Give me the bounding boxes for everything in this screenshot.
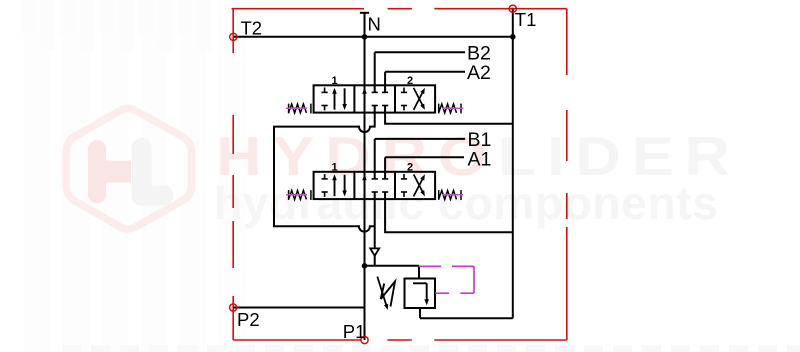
svg-text:2: 2 bbox=[407, 161, 413, 173]
svg-text:P1: P1 bbox=[343, 321, 366, 342]
svg-text:1: 1 bbox=[331, 75, 337, 87]
svg-text:T1: T1 bbox=[515, 9, 537, 30]
svg-text:1: 1 bbox=[331, 161, 337, 173]
svg-text:T2: T2 bbox=[241, 17, 263, 38]
svg-text:A2: A2 bbox=[467, 62, 491, 84]
svg-text:2: 2 bbox=[407, 75, 413, 87]
svg-text:P2: P2 bbox=[237, 309, 260, 330]
svg-text:N: N bbox=[368, 14, 381, 35]
svg-text:A1: A1 bbox=[468, 148, 492, 170]
svg-text:hydraulic components: hydraulic components bbox=[214, 177, 718, 229]
